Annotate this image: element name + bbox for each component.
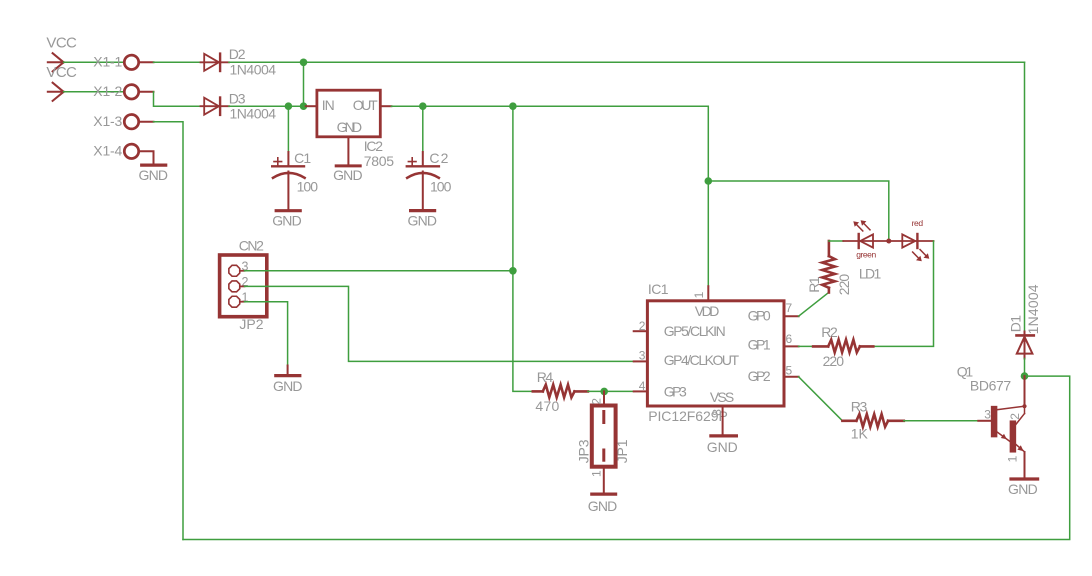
wire VDD branch to LD1 — [708, 181, 889, 239]
ground symbol (C1) — [276, 209, 300, 212]
svg-text:IN: IN — [322, 97, 335, 113]
connector pad X1-3 — [124, 115, 138, 129]
svg-text:7805: 7805 — [364, 153, 395, 169]
wire VCC to X1-2 — [64, 91, 124, 93]
wire JP2-1 to ground — [245, 302, 288, 366]
svg-text:JP2: JP2 — [239, 316, 263, 332]
svg-text:1: 1 — [590, 470, 604, 477]
wire collector node to right rail — [183, 376, 1070, 539]
pin stub JP2-1 — [240, 301, 244, 303]
wire R1 to LD1 anode — [829, 240, 843, 242]
svg-text:BD677: BD677 — [970, 378, 1012, 394]
svg-text:6: 6 — [786, 332, 793, 346]
svg-text:1N4004: 1N4004 — [230, 61, 277, 77]
pin stub IC1 pin2 GP5 — [634, 330, 648, 332]
svg-text:3: 3 — [639, 349, 646, 363]
LED LD1 red half — [889, 234, 934, 261]
pin stub IC1 pin3 GP4 — [634, 360, 648, 362]
connector pad X1-4 — [124, 144, 138, 158]
svg-text:X1-1: X1-1 — [93, 53, 122, 69]
svg-text:GND: GND — [1008, 481, 1038, 497]
svg-text:1N4004: 1N4004 — [1025, 284, 1041, 334]
svg-text:1: 1 — [692, 291, 706, 298]
connector pad X1-2 — [124, 85, 138, 99]
pin stub IC1 pin7 GP0 — [784, 315, 799, 317]
wire GP2 to R3 — [799, 377, 843, 421]
svg-text:GP5/CLKIN: GP5/CLKIN — [664, 323, 726, 339]
junction JP1 tee — [600, 388, 608, 396]
svg-text:C1: C1 — [294, 150, 311, 166]
svg-text:X1-2: X1-2 — [93, 83, 122, 99]
svg-text:470: 470 — [535, 398, 559, 414]
svg-text:X1-3: X1-3 — [93, 113, 122, 129]
junction Q1 collector node — [1021, 372, 1029, 380]
junction LD1 common — [886, 239, 891, 244]
pin stub Q1 emitter to ground — [1024, 452, 1026, 477]
svg-text:D2: D2 — [229, 46, 246, 62]
pin stub IC1 pin5 GP2 — [784, 376, 799, 378]
wire R3 to Q1 base — [904, 420, 979, 422]
svg-text:GP1: GP1 — [748, 337, 771, 353]
svg-text:GND: GND — [337, 119, 363, 135]
junction D2-rail tee — [300, 102, 308, 110]
supply symbol VCC (X1-2) — [48, 83, 64, 101]
wire GP1 to R2 — [799, 345, 814, 347]
pin stub X1-3 — [139, 121, 154, 123]
wire X1-2 to D3 — [154, 92, 205, 106]
supply symbol VCC (X1-1) — [48, 53, 64, 71]
capacitor C2 — [422, 106, 424, 152]
wire 7805 OUT rail — [391, 106, 708, 286]
svg-text:X1-4: X1-4 — [93, 142, 122, 158]
svg-text:220: 220 — [823, 353, 845, 369]
svg-text:GND: GND — [408, 213, 438, 229]
junction C1 branch — [285, 102, 293, 110]
pin stub IC1 pin8 VSS — [722, 406, 724, 434]
pin stub IC2 IN — [306, 105, 317, 107]
junction C2 branch — [419, 102, 427, 110]
svg-text:GP4/CLKOUT: GP4/CLKOUT — [664, 352, 740, 368]
wire JP2-3 to mid rail — [245, 270, 513, 272]
LED LD1 green half — [843, 220, 889, 248]
svg-text:GND: GND — [333, 167, 363, 183]
svg-text:1K: 1K — [851, 426, 869, 442]
svg-text:GND: GND — [707, 439, 738, 455]
svg-text:LD1: LD1 — [859, 266, 882, 282]
wire LD1 cathode down to R2 — [873, 241, 933, 346]
svg-text:4: 4 — [639, 379, 646, 393]
jumper JP1 — [603, 391, 605, 404]
svg-text:CN2: CN2 — [239, 238, 264, 254]
pin stub IC1 pin1 VDD — [707, 286, 709, 301]
svg-text:100: 100 — [297, 178, 319, 194]
junction VDD LED branch — [705, 177, 713, 185]
ground symbol (X1-4) — [142, 164, 166, 167]
svg-text:OUT: OUT — [353, 97, 378, 113]
svg-text:1N4004: 1N4004 — [230, 106, 277, 122]
pin stub X1-4 to ground — [139, 151, 154, 163]
wire X1-3 down-left rail — [154, 122, 184, 540]
svg-text:JP3: JP3 — [575, 439, 591, 463]
pin stub X1-1 — [139, 61, 154, 63]
svg-text:3: 3 — [984, 408, 991, 422]
svg-text:2: 2 — [1008, 413, 1022, 420]
svg-text:GND: GND — [588, 498, 618, 514]
svg-text:JP1: JP1 — [614, 439, 630, 463]
svg-text:7: 7 — [786, 301, 793, 315]
pin stub X1-2 — [139, 91, 154, 93]
wire JP2-2 to IC1 GP4 — [245, 286, 634, 361]
ground symbol (IC1 VSS) — [711, 434, 737, 437]
ground symbol (JP2-1) — [287, 366, 289, 374]
svg-text:green: green — [856, 249, 876, 259]
svg-text:IC2: IC2 — [364, 138, 383, 154]
pin pad JP2-1 — [229, 296, 240, 307]
svg-text:2: 2 — [590, 398, 604, 405]
svg-text:D1: D1 — [1007, 315, 1023, 333]
svg-text:D3: D3 — [229, 90, 246, 106]
pin stub JP1-1 to ground — [603, 467, 605, 492]
svg-text:VCC: VCC — [46, 64, 77, 81]
junction on D2 rail — [300, 59, 308, 67]
wire D3 to 7805 IN — [229, 105, 306, 107]
svg-text:VSS: VSS — [710, 389, 734, 405]
svg-text:IC1: IC1 — [648, 281, 669, 297]
svg-text:5: 5 — [786, 364, 793, 378]
pin stub IC2 GND — [347, 137, 349, 165]
pin pad JP2-2 — [229, 281, 240, 292]
pin pad JP2-3 — [229, 265, 240, 276]
svg-text:1: 1 — [1005, 455, 1019, 462]
capacitor C1 — [287, 106, 289, 152]
wire D2 to top-right rail — [229, 61, 1025, 63]
svg-text:100: 100 — [430, 178, 452, 194]
diode D3 — [201, 98, 230, 115]
svg-text:R1: R1 — [806, 276, 822, 293]
diode D2 — [201, 54, 230, 71]
resistor R1 — [822, 241, 835, 293]
svg-text:GP2: GP2 — [748, 368, 771, 384]
ground symbol (JP1) — [592, 493, 616, 496]
svg-text:red: red — [912, 218, 924, 228]
regulator IC2 7805 box — [317, 90, 380, 137]
diode D1 — [1024, 62, 1026, 331]
svg-text:8: 8 — [710, 409, 724, 416]
pin stub IC2 OUT — [381, 105, 392, 107]
svg-text:220: 220 — [836, 274, 852, 296]
svg-text:GND: GND — [272, 212, 302, 228]
pin stub Q1 base — [978, 420, 991, 422]
junction mid rail tee — [509, 267, 517, 275]
pin stub IC1 pin4 GP3 — [634, 390, 648, 392]
wire VCC to X1-1 — [64, 61, 124, 63]
wire X1-1 to D2 — [154, 61, 205, 63]
ground symbol (Q1) — [1011, 477, 1038, 480]
junction mid rail branch — [509, 102, 517, 110]
svg-text:R2: R2 — [821, 324, 838, 340]
wire GP0 to R1 — [799, 292, 829, 316]
wire R4 to IC1 GP3 — [588, 390, 634, 392]
pin stub JP2-2 — [240, 285, 244, 287]
svg-text:GND: GND — [139, 167, 169, 183]
svg-text:C2: C2 — [429, 150, 448, 166]
connector pad X1-1 — [124, 55, 138, 69]
svg-text:GP0: GP0 — [748, 307, 771, 323]
wire mid rail vertical to R4 row — [513, 106, 533, 391]
svg-text:VCC: VCC — [46, 35, 77, 52]
svg-text:R4: R4 — [537, 369, 554, 385]
svg-text:2: 2 — [639, 319, 646, 333]
wire junction down to D3 rail — [303, 62, 305, 106]
svg-text:VDD: VDD — [695, 303, 720, 319]
svg-text:GND: GND — [273, 378, 303, 394]
svg-text:GP3: GP3 — [664, 383, 687, 399]
pin stub IC1 pin6 GP1 — [784, 345, 799, 347]
ground symbol (C2) — [411, 209, 435, 212]
pin stub JP2-3 — [240, 270, 244, 272]
ground symbol (IC2) — [336, 164, 360, 167]
